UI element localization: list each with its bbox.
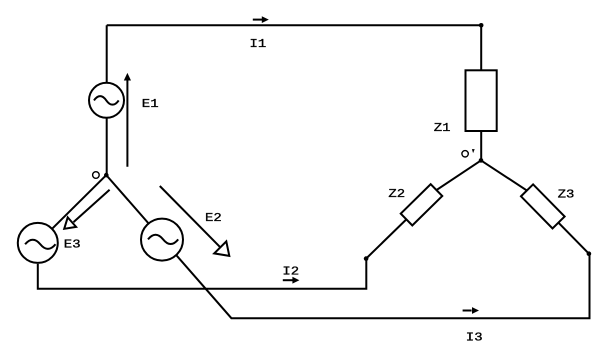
impedance Z2 — [401, 184, 443, 225]
label node O — [93, 172, 100, 179]
wire top horizontal I1 net — [107, 24, 482, 26]
impedance Z3 — [521, 184, 565, 228]
wire O to E3 — [38, 175, 107, 243]
label node O' — [462, 149, 475, 157]
arrow I1 — [253, 16, 269, 23]
source E3 — [18, 223, 58, 263]
svg-text:E3: E3 — [64, 238, 81, 252]
wire E3 bottom to I2 net — [38, 259, 367, 289]
svg-text:E2: E2 — [205, 211, 222, 225]
node left junction — [364, 256, 369, 261]
source E1 — [89, 83, 124, 118]
node O — [104, 173, 109, 178]
svg-text:I1: I1 — [250, 37, 267, 51]
wire O through E2 to I3 net — [106, 175, 589, 318]
svg-text:E1: E1 — [142, 97, 159, 111]
node top junction — [479, 23, 484, 28]
arrow E2 — [160, 186, 230, 256]
wire vertical E1 branch — [106, 25, 108, 175]
arrow I3 — [463, 307, 479, 314]
impedance Z1 — [466, 70, 497, 131]
node right junction — [587, 251, 592, 256]
svg-text:I2: I2 — [282, 264, 299, 278]
wire vertical through Z1 branch — [480, 25, 482, 160]
svg-text:Z1: Z1 — [434, 121, 451, 135]
arrow I2 — [283, 277, 300, 284]
svg-text:Z3: Z3 — [558, 187, 575, 201]
wire Z2 leads — [366, 160, 481, 258]
arrow E3 — [64, 190, 109, 229]
source E2 — [141, 219, 183, 261]
node O' — [479, 158, 484, 163]
arrow E1 — [124, 73, 131, 167]
svg-text:I3: I3 — [466, 330, 483, 344]
svg-text:Z2: Z2 — [388, 187, 405, 201]
wire Z3 leads — [481, 160, 589, 253]
